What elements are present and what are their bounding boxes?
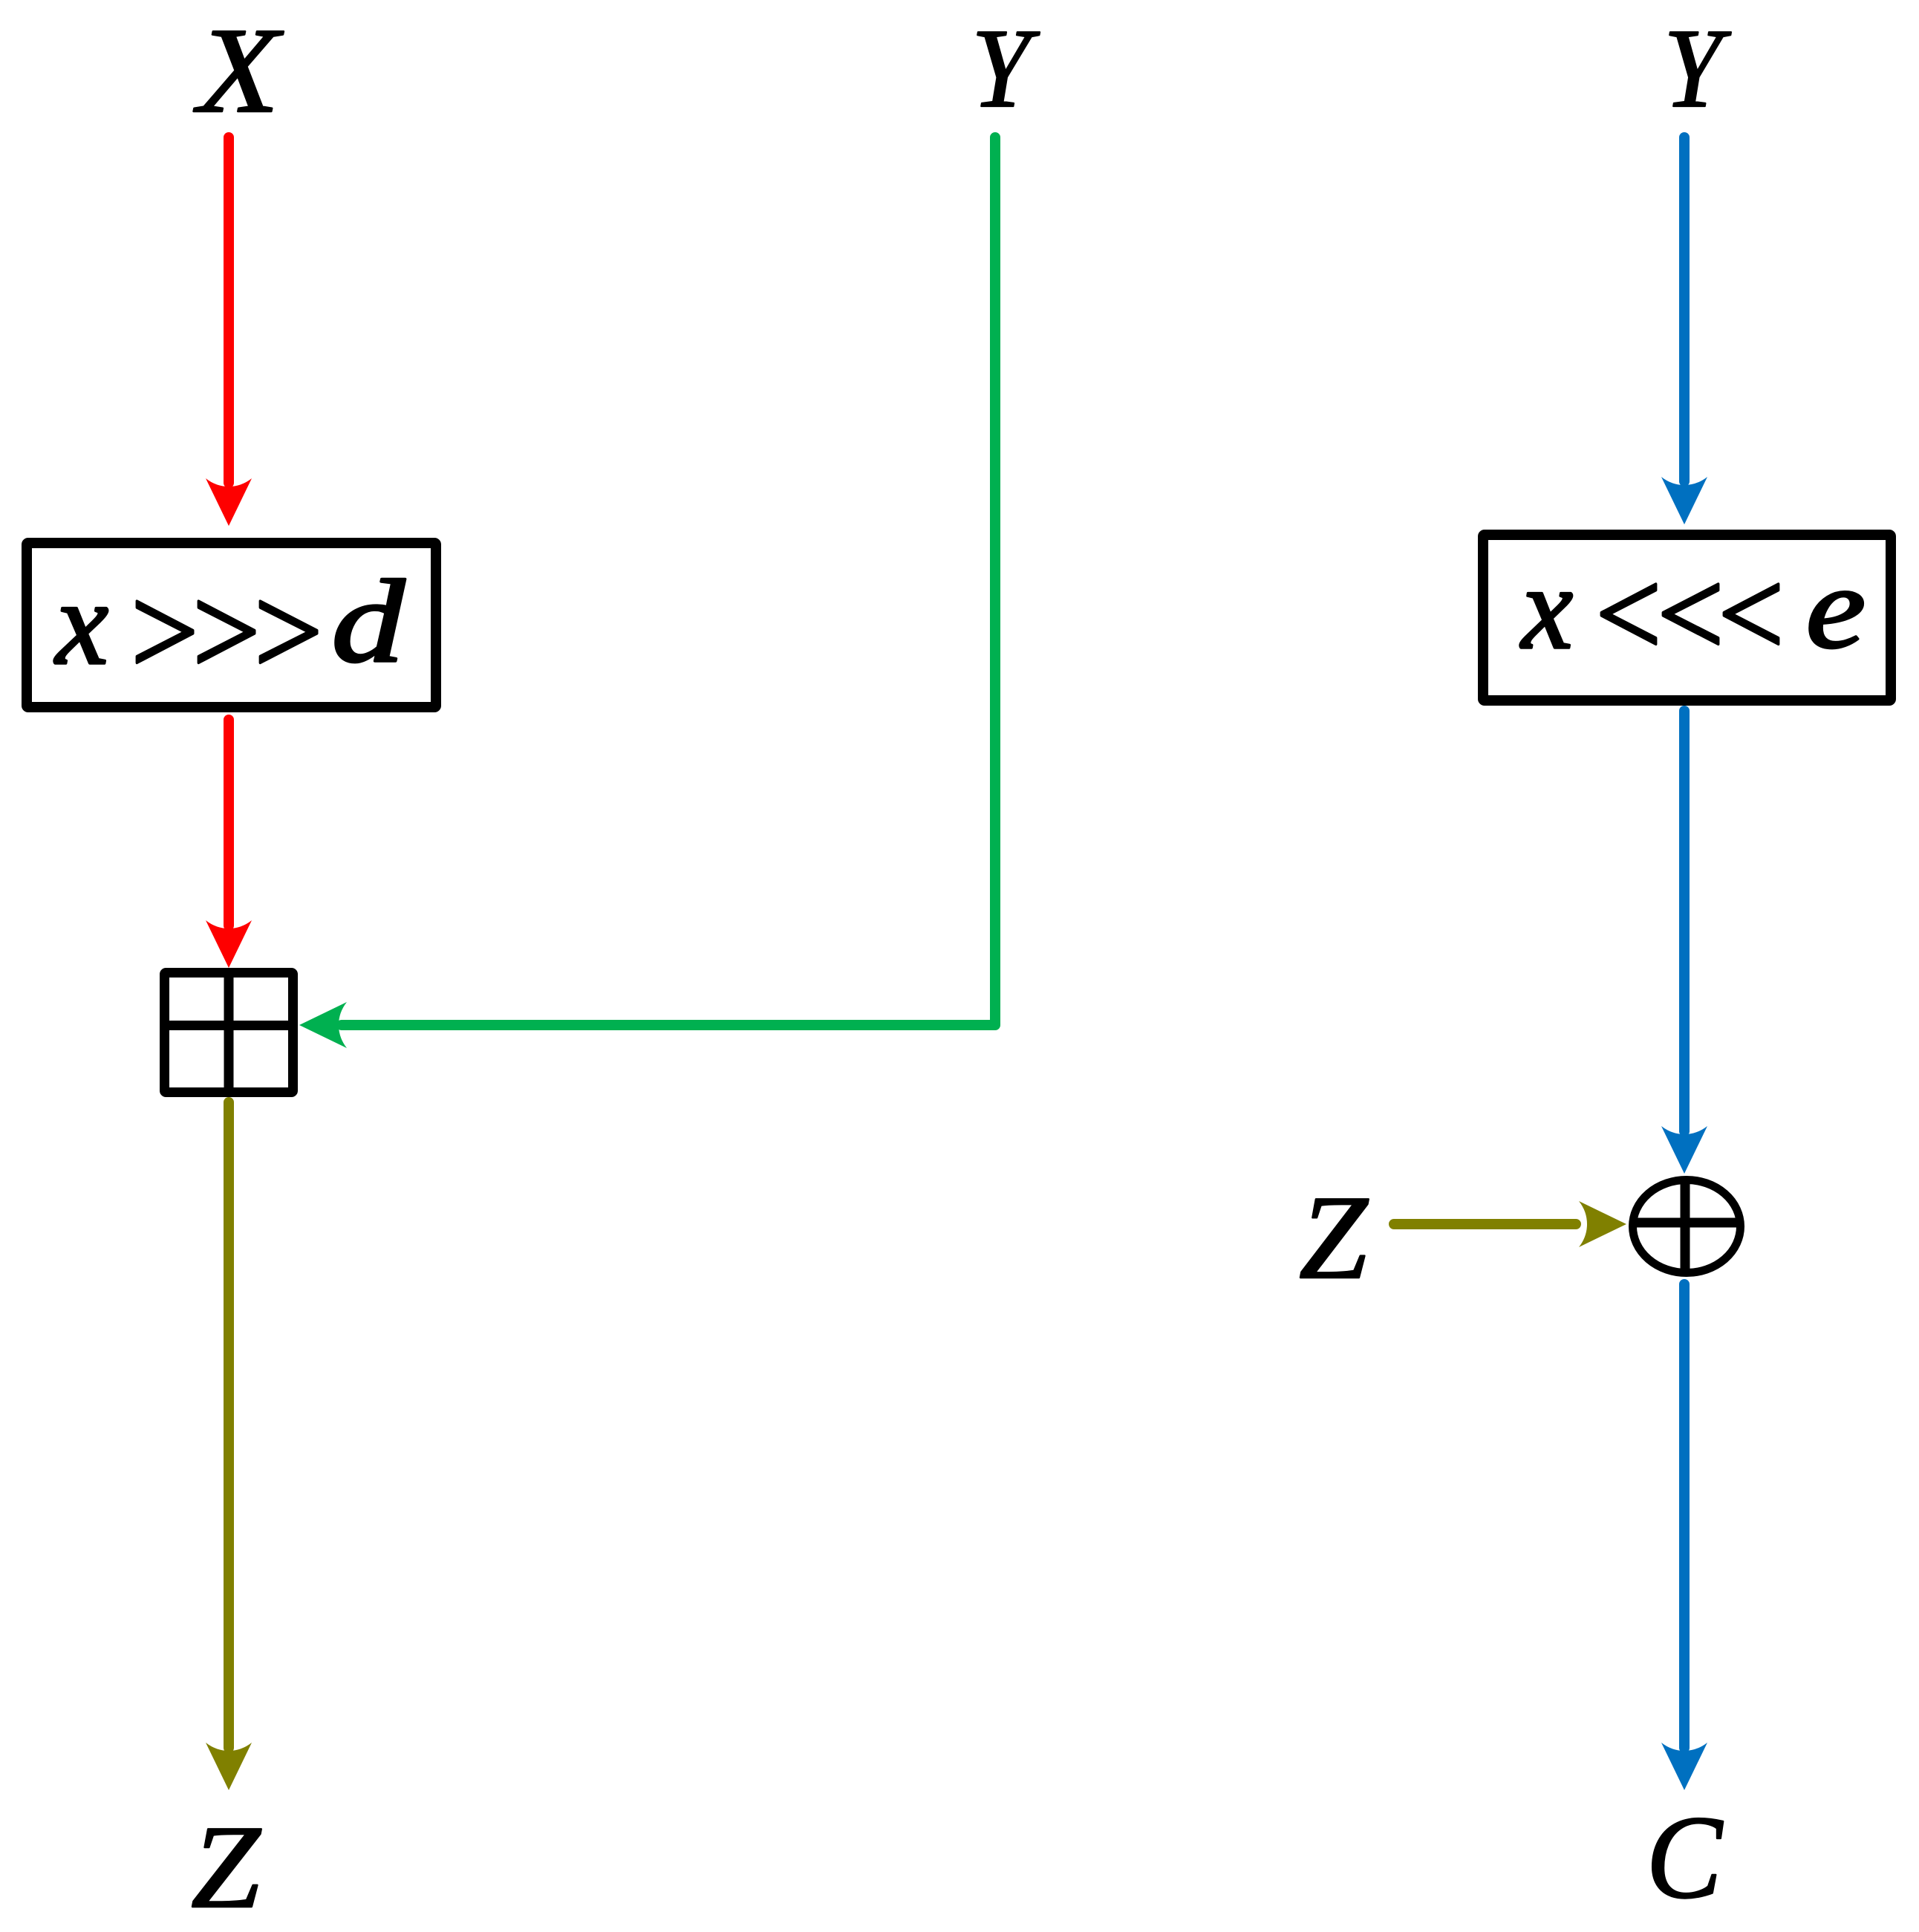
- svg-text:X: X: [193, 4, 284, 139]
- arrowhead green into adder: [299, 1002, 347, 1048]
- svg-text:x: x: [1520, 542, 1573, 674]
- arrowhead blue to C: [1661, 1743, 1707, 1790]
- wire rotate box to adder (red): [224, 720, 234, 926]
- wire rotate-left box to xor (blue): [1679, 711, 1690, 1131]
- svg-text:C: C: [1646, 1791, 1724, 1923]
- wire adder to Z (olive): [224, 1102, 234, 1748]
- wire xor to C (blue): [1679, 1284, 1690, 1748]
- rotate-left box (x <<< e): [1483, 535, 1891, 700]
- wire Y to rotate-left box (blue): [1679, 137, 1690, 481]
- wire Z to xor (olive): [1394, 1219, 1576, 1229]
- wire Y to adder (green): [342, 137, 995, 1025]
- arrowhead olive into xor: [1579, 1201, 1626, 1247]
- modular adder (boxed plus): [164, 972, 293, 1093]
- svg-text:Y: Y: [1664, 5, 1731, 131]
- svg-text:Y: Y: [971, 5, 1040, 131]
- svg-text:d: d: [331, 556, 405, 687]
- svg-text:Z: Z: [191, 1802, 261, 1932]
- value label x >>> d: [54, 556, 405, 703]
- rotate-right box (x >>> d): [27, 543, 436, 707]
- svg-text:>: >: [247, 561, 329, 702]
- svg-text:<: <: [1710, 545, 1789, 683]
- value label x <<< e: [1520, 542, 1866, 683]
- xor gate (circle plus): [1633, 1180, 1741, 1273]
- wire X to rotate box (red): [224, 137, 234, 483]
- arrowhead red into adder: [206, 920, 252, 968]
- arrowhead red into rotate box: [206, 478, 252, 526]
- svg-text:Z: Z: [1299, 1171, 1369, 1304]
- svg-text:e: e: [1806, 542, 1866, 672]
- svg-text:x: x: [54, 556, 108, 689]
- arrowhead blue into rotate-left box: [1661, 477, 1707, 524]
- arrowhead blue into xor: [1661, 1126, 1707, 1174]
- arrowhead olive to Z: [206, 1743, 252, 1790]
